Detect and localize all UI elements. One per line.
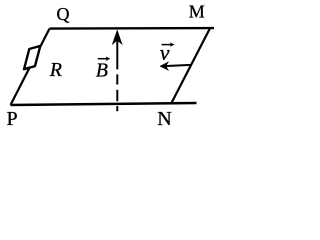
wire: bottom rail P to N (extends past N) <box>11 103 197 105</box>
resistor R (box on left side) <box>24 46 40 69</box>
magnetic field line dash 3 <box>116 106 118 111</box>
wire: right side rod M to N <box>171 28 210 103</box>
vector arrow over v <box>162 44 172 46</box>
svg-text:B: B <box>96 60 108 82</box>
wire: left side Q to P <box>11 29 50 105</box>
magnetic field line solid shaft <box>116 36 118 69</box>
magnetic field line dash 2 <box>116 90 118 101</box>
svg-text:R: R <box>49 59 62 81</box>
svg-text:v: v <box>160 40 170 65</box>
magnetic field line dash 1 <box>116 74 118 84</box>
velocity arrowhead <box>160 62 169 71</box>
velocity arrow shaft <box>164 65 191 66</box>
wire: top rail Q to M <box>50 27 215 30</box>
svg-text:Q: Q <box>57 4 70 24</box>
magnetic field line arrowhead <box>112 30 122 44</box>
svg-text:P: P <box>7 108 18 130</box>
svg-text:N: N <box>157 108 171 130</box>
svg-text:M: M <box>189 2 205 22</box>
vector arrow over B <box>98 58 108 60</box>
